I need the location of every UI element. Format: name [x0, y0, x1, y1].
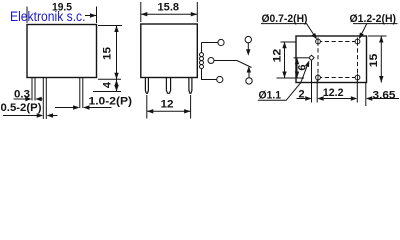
svg-text:4: 4	[102, 81, 114, 88]
svg-text:12: 12	[272, 49, 284, 63]
svg-text:15.8: 15.8	[158, 2, 180, 14]
svg-text:Elektronik s.c.: Elektronik s.c.	[10, 9, 86, 24]
svg-text:15: 15	[102, 47, 114, 60]
svg-text:12.2: 12.2	[323, 87, 344, 99]
svg-text:Ø1.2-2(H): Ø1.2-2(H)	[350, 13, 397, 25]
svg-text:0.5-2(P): 0.5-2(P)	[1, 102, 42, 114]
svg-text:2: 2	[298, 89, 304, 101]
svg-text:1.0-2(P): 1.0-2(P)	[89, 96, 133, 108]
svg-text:3.65: 3.65	[373, 90, 396, 102]
svg-text:15: 15	[368, 54, 380, 68]
svg-text:Ø1.1: Ø1.1	[259, 90, 282, 102]
svg-text:12: 12	[161, 99, 174, 111]
svg-text:Ø0.7-2(H): Ø0.7-2(H)	[262, 13, 308, 25]
svg-text:6: 6	[297, 64, 309, 70]
svg-text:0.3: 0.3	[14, 89, 30, 101]
